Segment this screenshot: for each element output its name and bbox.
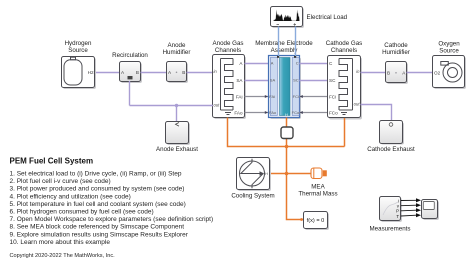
- wire recirculation return (AGC out to recirculation and anode exhaust): [130, 81, 214, 122]
- svg-text:Cooling System: Cooling System: [231, 193, 274, 200]
- thermal wire MEA H down: [287, 118, 304, 220]
- svg-text:Anode Exhaust: Anode Exhaust: [156, 146, 198, 153]
- block Cathode Exhaust: [367, 121, 415, 154]
- wire CGC FCi to MEA (signal): [300, 95, 328, 98]
- svg-text:FAo: FAo: [234, 111, 243, 116]
- wire CGC in to cathode humidifier: [361, 72, 387, 74]
- svg-text:Electrical Load: Electrical Load: [307, 14, 348, 21]
- annotation list: [10, 171, 214, 246]
- svg-text:Anode Gas: Anode Gas: [213, 40, 244, 47]
- svg-text:Source: Source: [68, 47, 88, 54]
- block Cathode Gas Channels: [326, 40, 362, 120]
- svg-text:FCi: FCi: [293, 94, 299, 99]
- block Scope: [422, 200, 440, 221]
- svg-text:Cathode Gas: Cathode Gas: [326, 40, 362, 47]
- svg-text:6. Plot hydrogen consumed by f: 6. Plot hydrogen consumed by fuel cell (…: [10, 209, 154, 216]
- svg-text:Source: Source: [439, 47, 459, 54]
- wire MEA SC to CGC: [300, 80, 328, 82]
- wire CGC out to cathode exhaust: [361, 105, 392, 122]
- svg-text:FCo: FCo: [292, 110, 300, 115]
- svg-text:4. Plot efficiency and utiliza: 4. Plot efficiency and utilization (see …: [10, 193, 131, 200]
- svg-text:8. See MEA block code referenc: 8. See MEA block code referenced by Sims…: [10, 224, 185, 231]
- svg-text:Copyright 2020-2022 The MathWo: Copyright 2020-2022 The MathWorks, Inc.: [10, 253, 116, 259]
- wire CGC FCo to MEA (signal): [300, 111, 328, 114]
- svg-text:SA: SA: [236, 78, 243, 83]
- svg-text:Channels: Channels: [215, 47, 241, 54]
- block Anode Humidifier: [163, 42, 191, 83]
- svg-text:T: T: [396, 214, 399, 219]
- thermal junction 2: [285, 172, 289, 176]
- svg-text:MEA: MEA: [311, 184, 325, 191]
- svg-text:H: H: [285, 112, 288, 117]
- svg-text:Measurements: Measurements: [370, 226, 411, 233]
- wire recirculation to anode humidifier: [141, 72, 168, 74]
- signal wire P to scope: [401, 208, 421, 212]
- svg-text:out: out: [354, 102, 361, 107]
- svg-text:3. Plot power produced and con: 3. Plot power produced and consumed by s…: [10, 186, 185, 193]
- signal wire v to scope: [401, 203, 421, 207]
- block Hydrogen Source: [62, 40, 97, 89]
- block Measurements: [370, 197, 411, 233]
- junction anode exhaust: [175, 104, 178, 107]
- svg-text:H: H: [265, 171, 268, 176]
- block Membrane Electrode Assembly: [255, 40, 313, 119]
- svg-text:Thermal Mass: Thermal Mass: [298, 191, 337, 198]
- block Oxygen Source: [433, 40, 467, 89]
- block Cathode Humidifier: [382, 42, 410, 84]
- svg-text:FAi: FAi: [236, 95, 243, 100]
- svg-text:Cathode Exhaust: Cathode Exhaust: [367, 146, 415, 153]
- svg-text:O2: O2: [434, 70, 441, 75]
- svg-text:10. Learn more about this exam: 10. Learn more about this example: [10, 239, 111, 246]
- svg-text:A: A: [271, 61, 274, 66]
- wire AGC FAo to MEA (signal): [245, 111, 269, 114]
- wire cathode humidifier to oxygen source: [407, 72, 434, 74]
- svg-text:Hydrogen: Hydrogen: [65, 40, 92, 47]
- svg-text:PEM Fuel Cell System: PEM Fuel Cell System: [10, 157, 94, 166]
- svg-text:FCo: FCo: [329, 111, 338, 116]
- svg-text:B: B: [182, 70, 185, 75]
- svg-text:1. Set electrical load to (i): 1. Set electrical load to (i) Drive cycl…: [10, 171, 182, 178]
- block Cooling System: [231, 158, 274, 200]
- svg-text:FCi: FCi: [329, 95, 336, 100]
- svg-text:Humidifier: Humidifier: [163, 49, 191, 56]
- wire MEA C to CGC: [300, 63, 328, 65]
- svg-text:Humidifier: Humidifier: [382, 49, 410, 56]
- svg-text:Anode: Anode: [168, 42, 186, 49]
- block Electrical Load: [271, 7, 348, 29]
- svg-text:SA: SA: [270, 78, 276, 83]
- svg-text:Membrane Electrode: Membrane Electrode: [255, 40, 313, 47]
- svg-text:out: out: [214, 103, 221, 108]
- svg-text:C: C: [296, 61, 299, 66]
- wire AGC FAi to MEA (signal): [245, 95, 269, 98]
- thermal port block below MEA: [281, 127, 293, 139]
- signal wire i to scope: [401, 198, 421, 202]
- svg-text:B: B: [136, 70, 139, 75]
- block Solver Configuration f(x)=0: [300, 212, 329, 231]
- thermal wire AGC to manifold: [228, 118, 345, 147]
- block Anode Gas Channels: [213, 40, 247, 119]
- svg-text:7. Open Model Workspace to exp: 7. Open Model Workspace to explore param…: [10, 216, 214, 223]
- svg-text:5. Plot temperature in fuel ce: 5. Plot temperature in fuel cell and coo…: [10, 201, 186, 208]
- wire AGC A to MEA: [245, 63, 269, 65]
- block Recirculation: [112, 52, 148, 83]
- svg-text:FAi: FAi: [269, 94, 275, 99]
- block Anode Exhaust: [156, 122, 198, 154]
- svg-text:B: B: [387, 70, 390, 75]
- svg-text:SC: SC: [329, 78, 336, 83]
- electrical wire + terminal to MEA: [295, 27, 297, 57]
- block MEA Thermal Mass: [298, 168, 337, 198]
- thermal wire cooling system to MEA thermal mass: [270, 173, 312, 175]
- svg-text:Cathode: Cathode: [384, 42, 408, 49]
- svg-text:Oxygen: Oxygen: [438, 40, 460, 47]
- svg-text:2. Plot fuel cell i-v curve (s: 2. Plot fuel cell i-v curve (see code): [10, 178, 111, 185]
- wire hydrogen source to recirculation: [95, 72, 121, 74]
- svg-text:Channels: Channels: [331, 47, 357, 54]
- svg-text:Recirculation: Recirculation: [112, 52, 148, 59]
- svg-text:f(x) = 0: f(x) = 0: [307, 218, 325, 224]
- svg-text:H2: H2: [88, 70, 94, 75]
- electrical wire - terminal to MEA: [278, 27, 280, 57]
- signal wire T to scope: [401, 213, 421, 217]
- svg-text:Assembly: Assembly: [271, 47, 299, 54]
- thermal junction 1: [285, 145, 289, 149]
- wire anode humidifier to anode gas channels: [187, 72, 214, 74]
- wire AGC SA to MEA: [245, 80, 269, 82]
- svg-text:9. Explore simulation results: 9. Explore simulation results using Sims…: [10, 231, 189, 238]
- svg-text:FAo: FAo: [269, 110, 277, 115]
- svg-text:SC: SC: [293, 78, 299, 83]
